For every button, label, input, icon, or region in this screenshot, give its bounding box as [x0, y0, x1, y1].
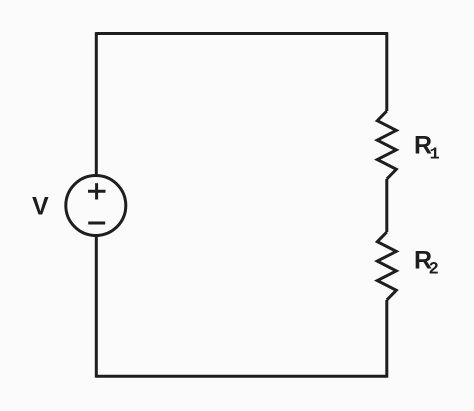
svg-text:V: V	[32, 193, 49, 221]
svg-text:1: 1	[430, 146, 440, 165]
svg-text:2: 2	[429, 258, 438, 277]
